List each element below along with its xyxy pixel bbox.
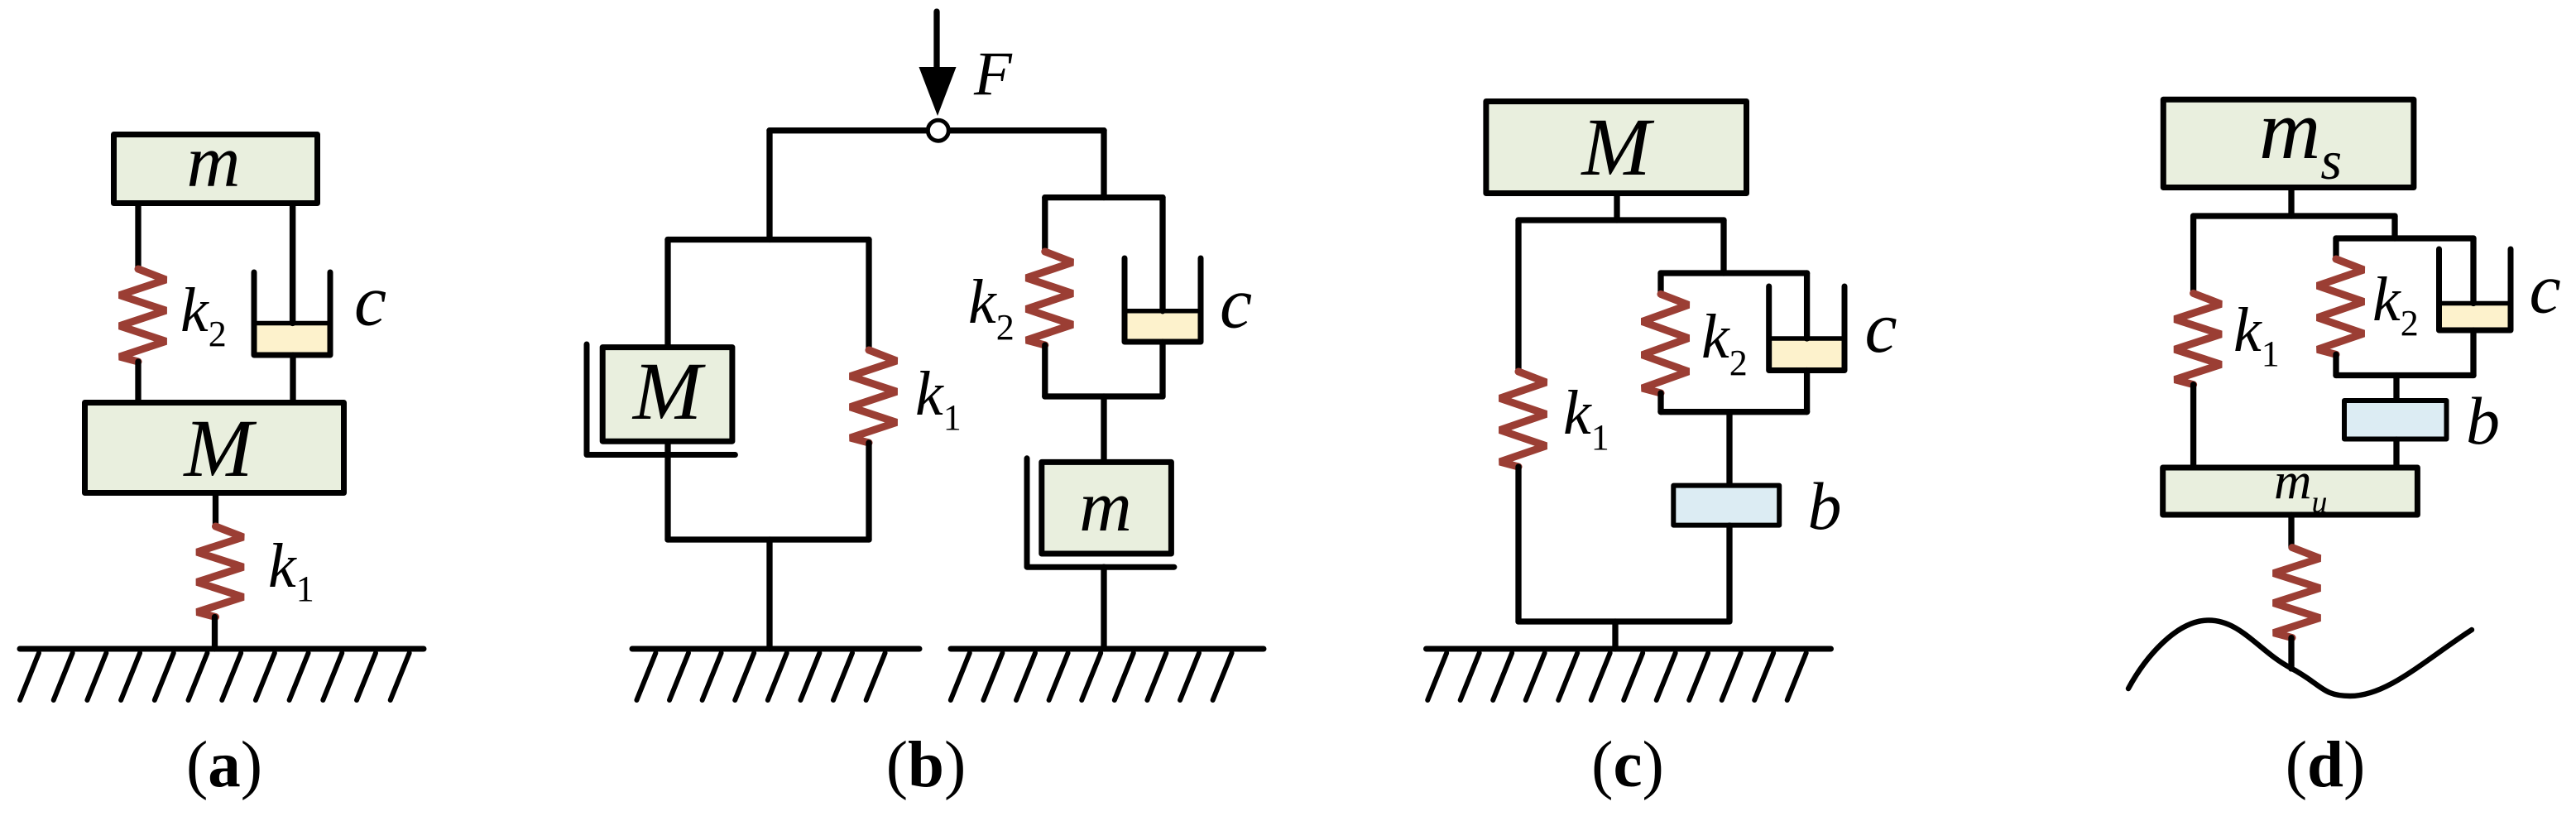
label c (d) <box>2530 249 2561 329</box>
right branch drop (c) <box>1720 220 1726 273</box>
svg-text:F: F <box>973 40 1013 108</box>
ground left (b) <box>632 649 919 700</box>
label k2 (c) <box>1701 302 1748 383</box>
spring k2 (c) <box>1643 294 1689 393</box>
wire: inerter to mu (d) <box>2393 439 2399 467</box>
spring k1 (b) <box>851 350 897 443</box>
label M (a) <box>182 402 257 494</box>
right branch drop (d) <box>2391 216 2397 238</box>
parallel box bottom (b) <box>1045 393 1163 399</box>
svg-text:b: b <box>1808 468 1842 544</box>
wire: mass m to spring k2, left drop (a) <box>135 203 141 269</box>
wire: node horizontal left (b) <box>770 127 938 133</box>
wire: spring k2 to mass M (a) <box>135 362 141 402</box>
svg-text:(c): (c) <box>1591 729 1664 801</box>
wire: mass M to spring k1 (a) <box>213 493 218 526</box>
outer frame right lower (b) <box>866 443 871 540</box>
label ms (d) <box>2259 83 2342 191</box>
wire: damper to mass M (a) <box>290 355 295 402</box>
label c (a) <box>354 262 386 342</box>
spring k1 (a) <box>197 526 243 617</box>
spring k1 (d) <box>2175 293 2221 384</box>
outer frame right upper (b) <box>866 240 871 351</box>
svg-text:(b): (b) <box>886 729 967 801</box>
label M (b) <box>631 345 706 437</box>
ground right (b) <box>951 649 1264 700</box>
spring k2 (d) <box>2318 259 2364 354</box>
left branch upper (c) <box>1515 220 1521 372</box>
label M (c) <box>1580 101 1654 193</box>
ground (a) <box>20 649 424 700</box>
force arrow F (b) <box>919 12 957 116</box>
left branch upper (d) <box>2190 216 2196 293</box>
parallel box top (c) <box>1661 270 1807 276</box>
wire: outer frame to ground (b) <box>766 540 772 649</box>
wire: ms stub down (d) <box>2288 188 2294 216</box>
wire: bottom bar to ground (c) <box>1612 622 1618 649</box>
parallel box bottom (d) <box>2336 372 2473 378</box>
label k2 (b) <box>968 267 1015 348</box>
parallel box left upper (c) <box>1657 273 1663 294</box>
svg-text:M: M <box>1580 101 1654 193</box>
label c (b) <box>1220 264 1252 344</box>
wire: damper cup to box bottom (b) <box>1159 342 1165 396</box>
label k1 (d) <box>2233 295 2280 374</box>
mass m (a) <box>114 135 318 204</box>
label b (d) <box>2466 383 2500 458</box>
wire: mass m to damper rod, right drop (a) <box>290 203 295 324</box>
caption (c) <box>1591 729 1664 801</box>
wire: right drop to parallel box (b) <box>1101 131 1106 198</box>
label F (b) <box>973 40 1013 108</box>
outer frame top (b) <box>668 237 869 242</box>
left branch lower (c) <box>1515 467 1521 622</box>
slider bracket m (b) <box>1027 458 1174 567</box>
wire: box to mass m (b) <box>1101 396 1106 462</box>
caption (d) <box>2286 729 2366 801</box>
parallel box bottom (c) <box>1661 409 1807 415</box>
label k1 (c) <box>1563 378 1609 458</box>
wire: node horizontal right (b) <box>938 127 1104 133</box>
outer frame bottom (b) <box>668 536 869 542</box>
caption (b) <box>886 729 967 801</box>
wire: box to inerter (d) <box>2393 376 2399 401</box>
svg-text:m: m <box>1079 467 1132 547</box>
node circle (b) <box>928 120 948 141</box>
wire: damper cup to box bottom (c) <box>1804 371 1810 412</box>
label m (b) <box>1079 467 1132 547</box>
wire: road spring to road (d) <box>2288 638 2294 669</box>
label k1 (b) <box>915 359 962 438</box>
wire: inerter to bottom bar (c) <box>1726 526 1732 622</box>
label k2 (d) <box>2372 265 2419 343</box>
label k1 (a) <box>268 531 314 609</box>
spring k2 (b) <box>1026 252 1072 345</box>
label k2 (a) <box>180 276 227 354</box>
T-bar under M (c) <box>1518 217 1724 223</box>
caption (a) <box>186 729 262 801</box>
spring k1 (c) <box>1500 372 1547 467</box>
label c (c) <box>1865 288 1897 368</box>
svg-text:b: b <box>2466 383 2500 458</box>
mass M (b) <box>602 348 732 442</box>
parallel box left upper (d) <box>2333 238 2339 259</box>
mass m (b) <box>1042 462 1172 554</box>
svg-text:c: c <box>1865 288 1897 368</box>
mass M (a) <box>85 403 344 493</box>
inerter b (c) <box>1673 486 1779 526</box>
svg-text:(a): (a) <box>186 729 262 801</box>
ground (c) <box>1427 649 1831 700</box>
spring k2 (a) <box>120 269 166 362</box>
label b (c) <box>1808 468 1842 544</box>
parallel box left lower (b) <box>1042 345 1048 396</box>
label mu (d) <box>2274 453 2328 521</box>
wire: spring k1 to ground (a) <box>212 617 218 650</box>
mass ms (d) <box>2163 99 2414 187</box>
svg-text:(d): (d) <box>2286 729 2366 801</box>
svg-text:M: M <box>182 402 257 494</box>
wire: box to inerter (c) <box>1726 412 1732 485</box>
slider bracket M (b) <box>587 344 735 455</box>
wire: mu to road spring (d) <box>2288 515 2294 548</box>
svg-text:c: c <box>2530 249 2561 329</box>
left branch lower (d) <box>2190 385 2196 467</box>
svg-text:c: c <box>354 262 386 342</box>
svg-text:M: M <box>631 345 706 437</box>
damper c (c) <box>1769 273 1844 371</box>
parallel box left lower (c) <box>1657 393 1663 412</box>
svg-text:c: c <box>1220 264 1252 344</box>
mass mu (d) <box>2163 468 2418 515</box>
damper c (b) <box>1125 198 1201 342</box>
damper c (a) <box>254 203 330 355</box>
svg-text:m: m <box>187 121 241 203</box>
wire: mass m to ground (b) <box>1101 567 1106 649</box>
parallel box top (d) <box>2336 235 2473 241</box>
wire: damper cup to box bottom (d) <box>2470 330 2476 376</box>
mass M (c) <box>1486 102 1747 194</box>
outer frame left (b) <box>664 240 670 540</box>
wire: mass M stub down (c) <box>1614 194 1619 220</box>
road spring (d) <box>2274 548 2320 638</box>
parallel box left lower (d) <box>2333 354 2339 375</box>
bottom bar (c) <box>1518 618 1729 624</box>
inerter b (d) <box>2344 401 2447 439</box>
damper c (d) <box>2439 238 2511 330</box>
parallel box left upper (b) <box>1042 198 1048 252</box>
label m (a) <box>187 121 241 203</box>
parallel box top (b) <box>1045 194 1163 200</box>
T-bar under ms (d) <box>2194 213 2395 218</box>
wire: left drop to outer frame (b) <box>766 131 772 240</box>
road profile wave (d) <box>2128 621 2472 697</box>
